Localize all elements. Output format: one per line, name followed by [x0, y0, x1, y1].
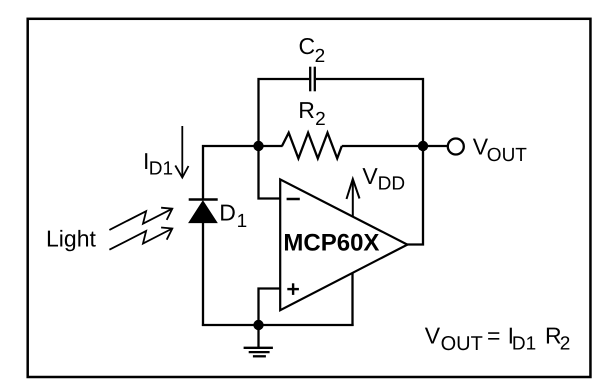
svg-text:D1: D1 — [149, 158, 173, 179]
VDD supply arrow — [347, 179, 360, 217]
svg-text:1: 1 — [237, 211, 248, 232]
equation VOUT = ID1 R2 — [425, 323, 571, 355]
svg-text:2: 2 — [560, 334, 571, 355]
svg-text:C: C — [299, 33, 316, 59]
node B junction dot — [418, 141, 428, 151]
wire: C2 right plate over and down to node B — [316, 79, 423, 146]
ground node junction dot — [253, 320, 263, 330]
svg-text:DD: DD — [378, 173, 405, 194]
svg-text:=: = — [487, 323, 500, 349]
op-amp U1 triangle — [280, 179, 407, 310]
svg-text:V: V — [425, 323, 441, 349]
resistor R2 — [282, 133, 342, 159]
wire: node A down to inverting input — [259, 146, 281, 199]
svg-text:2: 2 — [315, 46, 326, 67]
wire: photodiode anode down to ground rail — [202, 223, 204, 327]
light ray arrow 1 — [109, 208, 172, 230]
svg-text:OUT: OUT — [441, 333, 483, 355]
plus sign (non-inverting input) — [287, 283, 299, 295]
wire: non-inverting input to ground node — [259, 289, 281, 326]
svg-text:Light: Light — [46, 225, 96, 251]
svg-text:OUT: OUT — [487, 145, 528, 166]
wire: VSS pin down to ground rail — [351, 273, 353, 327]
VOUT open terminal — [448, 139, 464, 155]
wire: op-amp output to node B — [407, 146, 424, 245]
wire: node B to VOUT terminal — [423, 145, 448, 147]
svg-text:2: 2 — [315, 109, 326, 130]
wire: node A to R2 left lead — [256, 145, 283, 147]
current arrow ID1 — [175, 126, 188, 178]
svg-text:MCP60X: MCP60X — [283, 229, 379, 256]
photodiode D1 — [189, 200, 218, 223]
wire: R2 right lead to node B — [342, 145, 423, 147]
svg-text:V: V — [362, 163, 378, 189]
svg-text:R: R — [298, 97, 315, 123]
capacitor C2 — [310, 67, 315, 92]
wire: node A up and over to C2 left plate — [259, 79, 310, 147]
svg-text:D1: D1 — [512, 333, 536, 354]
minus sign (inverting input) — [287, 198, 300, 201]
wire: ground rail — [202, 324, 354, 326]
ground symbol — [244, 325, 273, 356]
node A junction dot — [253, 141, 263, 151]
svg-text:D: D — [219, 200, 236, 226]
light ray arrow 2 — [109, 228, 172, 250]
wire: photodiode cathode up and right to node A — [203, 146, 259, 200]
